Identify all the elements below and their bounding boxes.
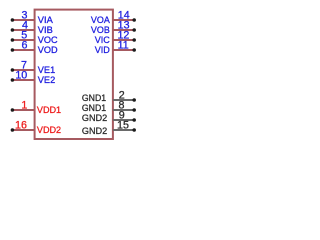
pin 15 GND2	[82, 119, 136, 137]
svg-text:GND2: GND2	[82, 126, 107, 137]
svg-text:GND2: GND2	[82, 113, 107, 124]
pin 12 VIC	[95, 29, 136, 46]
pin 11 VID	[95, 39, 136, 56]
svg-text:11: 11	[118, 39, 129, 51]
svg-text:10: 10	[15, 69, 27, 81]
pin 14 VOA	[91, 9, 136, 26]
pin 5 VOC	[11, 29, 58, 46]
pin 3 VIA	[11, 9, 54, 26]
pin 8 GND1	[82, 99, 136, 114]
svg-text:VOD: VOD	[38, 45, 58, 56]
pin 6 VOD	[11, 39, 58, 56]
pin 10 VE2	[11, 69, 56, 86]
svg-text:VID: VID	[95, 45, 110, 56]
pin 16 VDD2	[11, 119, 61, 136]
svg-text:16: 16	[15, 119, 27, 131]
svg-text:6: 6	[22, 39, 28, 51]
pin 1 VDD1	[11, 99, 61, 116]
svg-text:VDD2: VDD2	[37, 125, 61, 136]
pin 4 VIB	[11, 19, 53, 36]
svg-text:1: 1	[21, 99, 27, 111]
pin 7 VE1	[11, 59, 56, 76]
svg-text:15: 15	[117, 119, 129, 131]
pin 2 GND1	[82, 89, 136, 104]
IC body U1 (rectangle outline)	[35, 10, 113, 139]
svg-text:VDD1: VDD1	[37, 105, 61, 116]
pin 13 VOB	[91, 19, 136, 36]
svg-text:VE2: VE2	[38, 75, 55, 86]
pin 9 GND2	[82, 109, 136, 124]
